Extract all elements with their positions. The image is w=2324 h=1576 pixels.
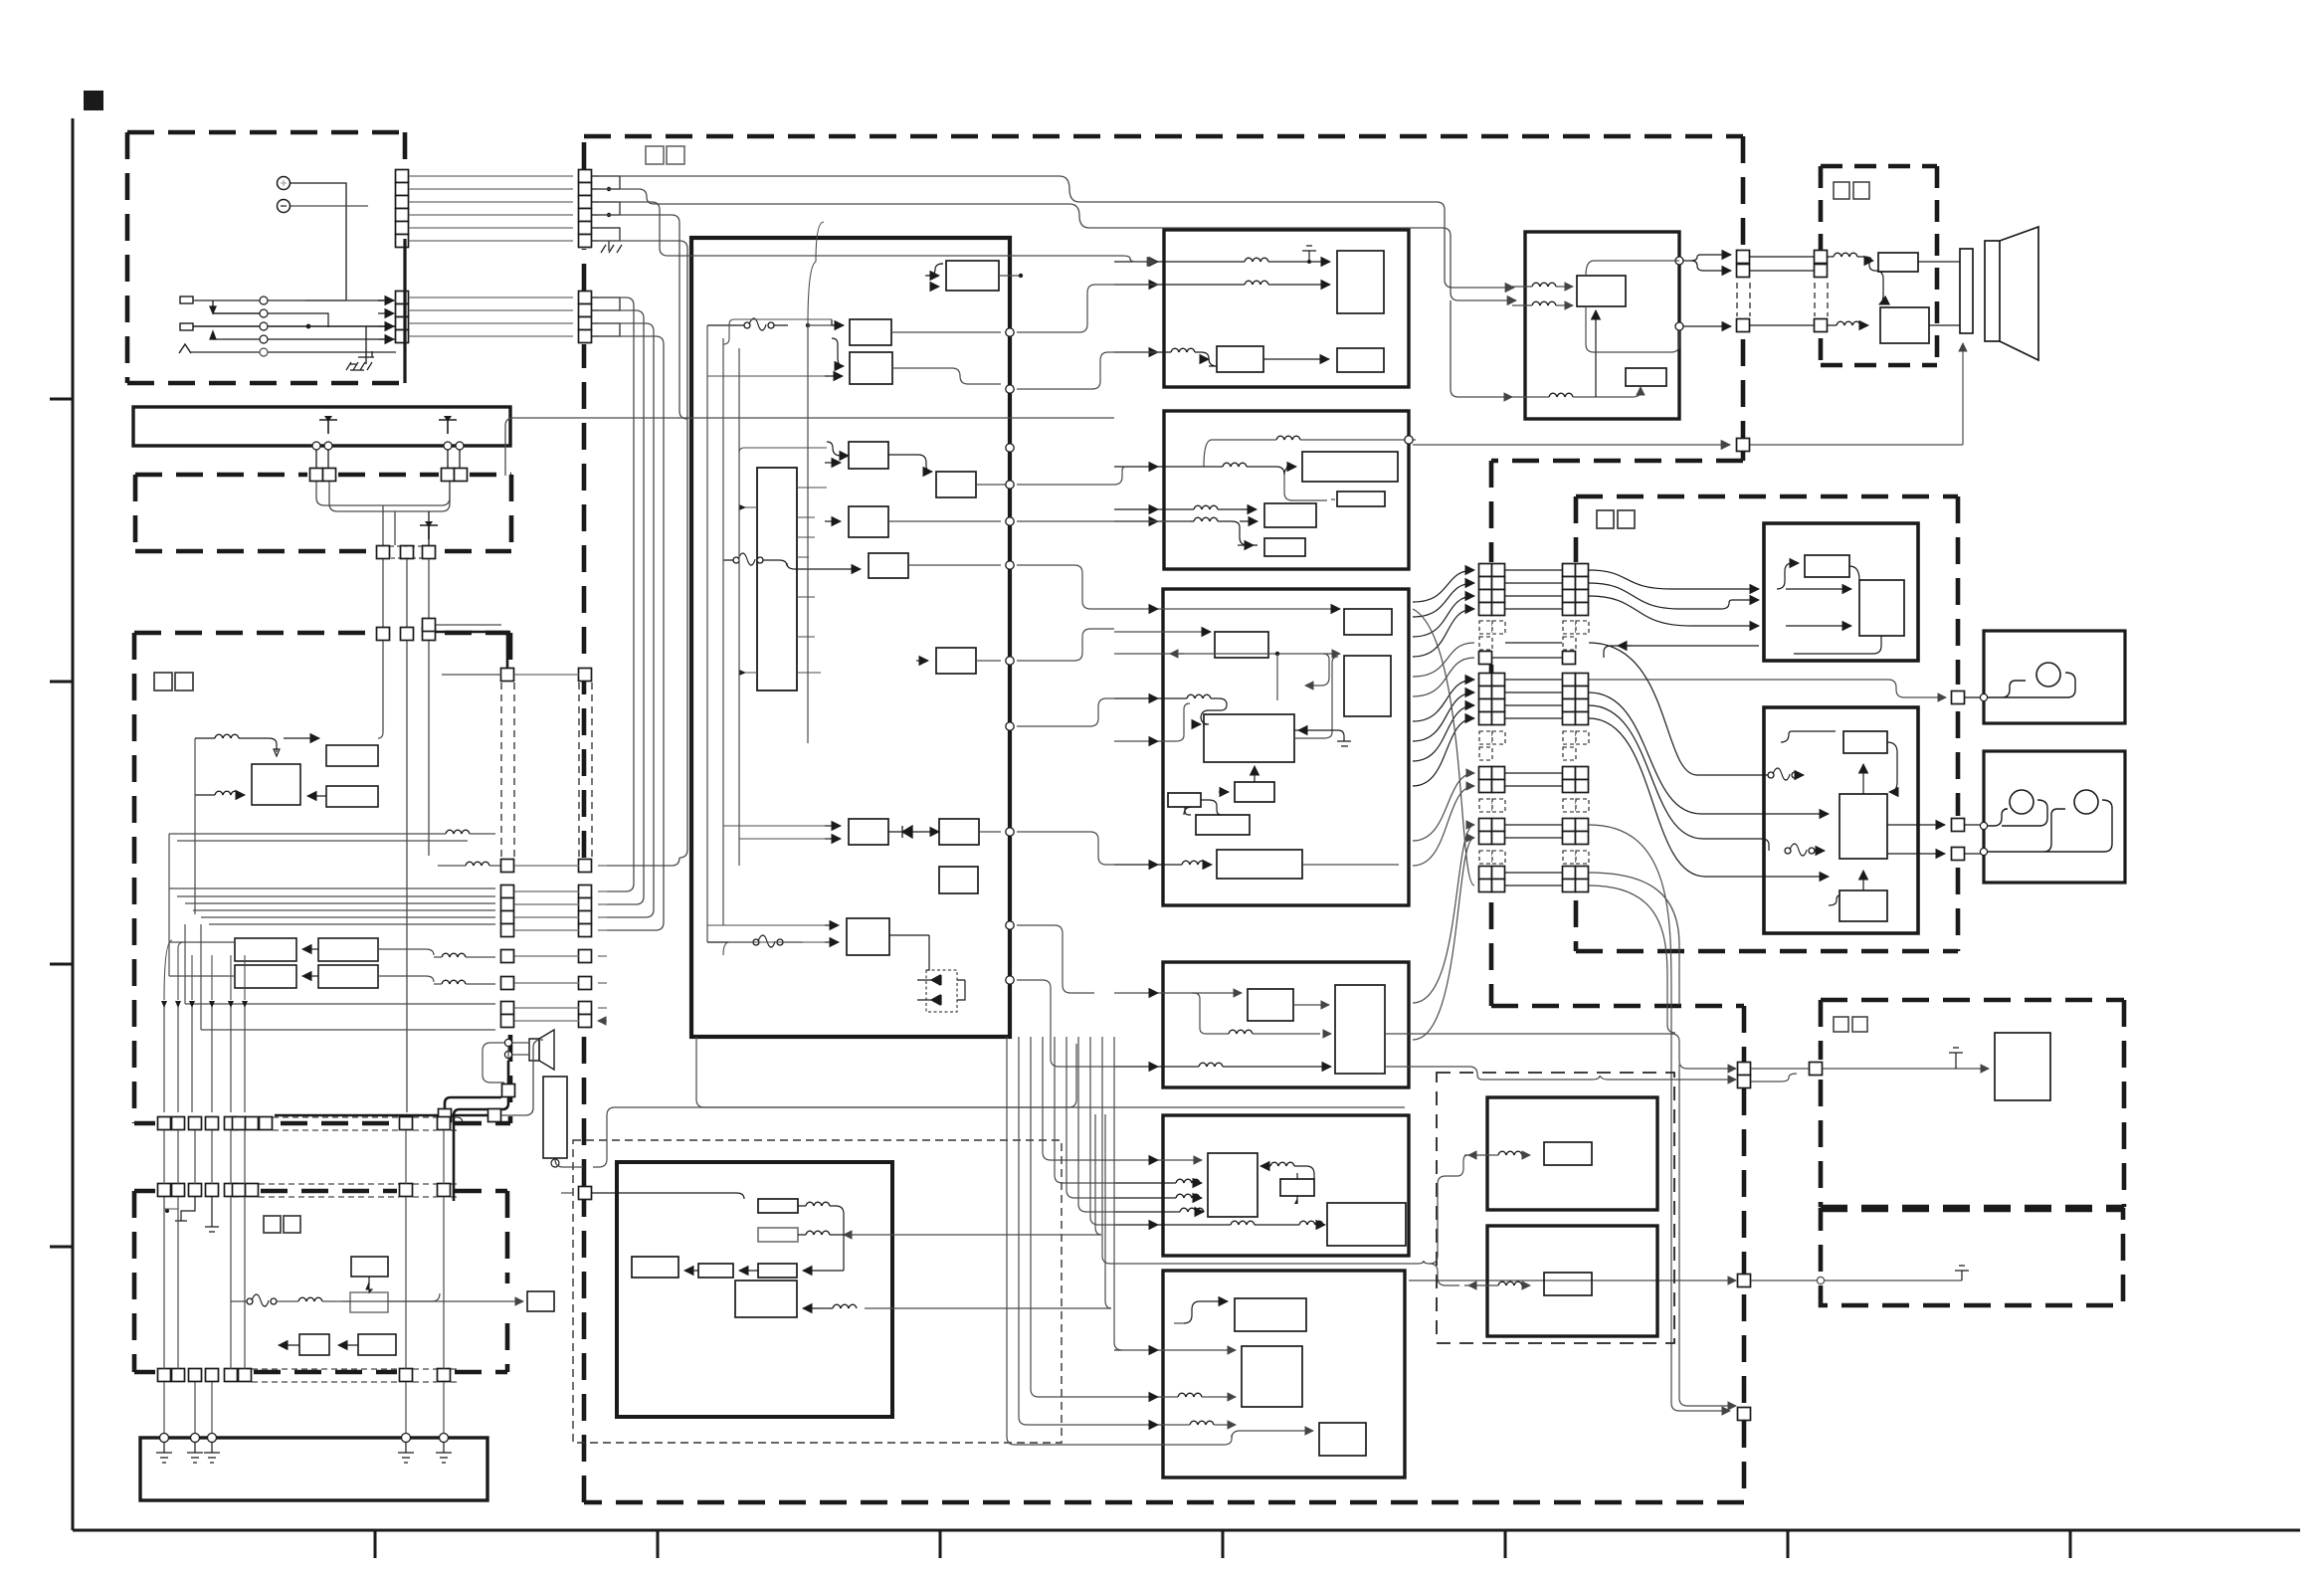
bottom tick 2 [657,1530,660,1558]
connector sq on F edge at O [579,1187,592,1200]
label squares block D [154,673,172,690]
box m1 [1235,1298,1306,1331]
label squares block Q [1834,182,1849,199]
wires Q boxes to speaker [1918,262,1960,325]
left feeder verticals inside G [706,325,708,942]
box l3 [1327,1203,1406,1246]
box t1 [1843,731,1887,753]
connector sq V2 on V edge [1810,1063,1823,1076]
box v1 [1995,1033,2050,1100]
jack wire 1 with contacts [193,299,396,301]
box M : power block [1163,1271,1405,1477]
box d1 [326,745,378,766]
circles on B bottom edge [312,442,320,450]
box Qa [1878,253,1918,272]
left tick 3 [50,963,73,966]
J inductor wire [1187,694,1211,698]
box g9 [849,819,888,845]
box g3 [850,352,892,384]
diode pair dotted box [926,970,957,1012]
connector pair on C top 1 [310,469,323,482]
feedback wire up into speaker driver [1962,343,1964,445]
box g1 top right [946,261,999,291]
box o6 [735,1280,797,1317]
thin dashed block N : sub area inside main board bottom [573,1140,1062,1443]
box g8 [936,648,976,674]
box l1 [1208,1153,1258,1217]
speaker driver rect [1960,249,1973,333]
wires between R columns lower [1505,680,1562,886]
h2 to h3 [1263,358,1329,360]
wires strip3 to battery box [164,1382,444,1434]
bottom tick 7 [2069,1530,2072,1558]
box S : loading motor drive (thick) [1764,523,1918,661]
box g11 [939,867,978,893]
K inductor mid [1229,1030,1253,1034]
box h1 [1337,251,1384,313]
box e5 small outside E [527,1291,554,1311]
box O : tuner block (thick) [617,1162,892,1417]
heavy path connector to strip [454,1097,508,1201]
G internal feeder curves top [808,262,816,325]
fuse feeding g7 [733,553,763,565]
K bottom wire [1199,1063,1223,1067]
M input wires [1114,1349,1236,1351]
box g6 [849,506,888,537]
wires between R columns upper [1492,570,1562,658]
antenna symbol 2 above B bottom [439,416,457,434]
strip row 1 on D bottom edge [158,1117,451,1130]
bottom tick 3 [939,1530,942,1558]
box J : servo block [1163,589,1409,905]
box j7 [1196,815,1250,835]
connector sq V1b on F edge [1738,1076,1751,1088]
box K : sync block [1163,962,1409,1087]
box L : regulator block [1163,1115,1409,1256]
wires inside C [316,482,450,505]
box o5 [758,1264,797,1278]
dashed block D : sub board left [134,633,510,1123]
connector strip below C [377,546,390,559]
lower col loop descenders [598,297,634,891]
wire from minus terminal [290,205,368,207]
o3-o4-o5 chain [684,1270,698,1272]
connector sq W1 [1738,1275,1751,1287]
box e1 [351,1257,388,1277]
wire loop from Qa down to Qb [1875,271,1883,304]
speaker connector column 2 [1815,251,1828,264]
left tick 2 [50,681,73,684]
L bottom wires with inductors [1231,1221,1255,1225]
box X2 inner [1544,1273,1592,1295]
box p2 [1626,368,1666,386]
wire d2 vertical feeds [194,738,196,914]
wires bus to H [1017,285,1158,332]
speaker cone [2000,227,2038,360]
connector sq on F edge bottom right [1738,1408,1751,1421]
t2 outputs to connectors [1887,824,1945,826]
box j5 [1235,782,1274,802]
fan-in wires J to column R1 upper [1413,570,1474,602]
jack plug 1 [180,296,193,303]
box g10 [939,819,979,845]
box t2 [1840,794,1887,859]
s1 input elbow [1777,563,1799,589]
box e4 [358,1334,396,1355]
H wire 1 with inductor [1245,258,1268,262]
box k2 tall [1335,985,1385,1074]
fuse + inductor wire into e4 [247,1294,277,1306]
long loop wire 1 (top) to P [598,176,1514,288]
inductor to Qa [1834,253,1857,257]
J top wire [1114,608,1338,610]
heavy vertical below speaker [507,1061,510,1083]
bottom tick 6 [1787,1530,1790,1558]
antenna symbol 1 above B bottom [319,416,337,434]
dashed box Y right of M [1437,1073,1674,1343]
m1 input elbow [1184,1301,1228,1323]
mic symbol [179,344,191,353]
box e2 [350,1292,388,1312]
box h3 [1337,348,1384,372]
wire bundle A2 to F edge [409,296,573,298]
loop wire 3 into H [598,202,1156,262]
box s1 [1805,555,1849,577]
long wire from C area y=420 [513,417,1114,419]
box j8 bottom [1217,850,1302,879]
box T : capstan motor drive (thick) [1764,707,1918,933]
I top wire with inductor to right edge [1276,436,1300,440]
left tick 1 [50,398,73,401]
column R1 lower group [1479,674,1505,725]
black index square top-left [84,91,103,110]
box j3 [1344,656,1391,716]
bottom tick 5 [1504,1530,1507,1558]
box t3 [1840,890,1887,921]
inductor to d1 [215,734,239,738]
O feed wire from connector [592,1193,744,1199]
j4 feeds [1294,657,1338,738]
connector column D-right top square [501,669,514,682]
box U2 : drum/capstan motors [1984,751,2125,883]
X1 wire [1498,1151,1522,1155]
box g5 [936,472,976,497]
box e3 [299,1334,329,1355]
wires g4/g5/g6 [827,442,849,456]
box g12 (lower center) [847,918,889,955]
descender to long 421 wire [598,215,687,419]
box m3 [1319,1423,1366,1456]
paired boxes row 2 [235,965,296,988]
label squares block F [646,146,664,164]
long loop wire 2 to P [598,189,1516,300]
dashed block V : sensor board right-bottom [1821,1000,2124,1207]
wires from R2 to V/W connectors [1589,873,1679,1005]
heavy elbow from top connector [436,632,507,668]
block A right edge heavy segment [403,239,406,383]
box B : switch strip board [133,407,510,446]
X2 wire [1498,1281,1522,1285]
box BT : battery holder bottom-left [140,1438,487,1500]
box j1 [1344,609,1392,635]
wire d3 to d2 [307,795,326,797]
battery ground symbols [156,1443,172,1463]
connector column A1 on block A [396,170,409,248]
column R1 upper solid pairs [1479,564,1505,616]
box U1 : loading motor [1984,631,2125,723]
strip row 2 on E top edge [158,1184,451,1197]
wire bundle A1 to F edge [409,175,573,177]
grounds under strip2 [175,1197,195,1221]
dashed block W : bottom-right board [1821,1210,2123,1305]
g2 input [832,319,844,325]
inductor on bundle wire to colA [466,862,489,866]
paired boxes row 1 [235,938,296,961]
box s2 [1859,580,1904,636]
connector top feed wire [436,624,501,626]
P third input from loop2 branch [1451,300,1499,397]
box g2 [850,319,891,345]
dashed block E : bottom-left board [134,1191,507,1372]
jack switch arrow 1 [210,300,216,313]
box i4 [1264,538,1305,556]
G right bus junctions [1006,328,1014,336]
t1 wires [1781,731,1836,742]
P input inductors [1532,283,1556,287]
column R2 lower group [1563,674,1589,725]
box o2 [758,1228,798,1242]
K outputs right to V connectors [1385,1034,1736,1069]
I wires 3/4 with inductors [1194,505,1218,509]
box o1 [758,1199,798,1213]
connector column A2 on block A [396,292,409,343]
P wire loop to top [1586,261,1679,276]
connector sq V1a on F edge [1738,1063,1751,1076]
motor M3 in U2 [2074,790,2098,814]
dashed block R : mechanism board right [1576,496,1958,951]
J bottom wire with inductor [1182,861,1206,865]
big loop from R2 to U1 connector [1589,680,1946,697]
s wires to s2 [1786,588,1851,590]
wires below rows [169,888,235,942]
j6/j7 wires [1185,807,1191,815]
box H : audio block [1164,230,1409,387]
tall rect pin stubs [797,488,827,673]
box G : main system IC block [691,238,1010,1037]
box Qb [1880,307,1929,343]
dashed block C : switch board [135,475,511,551]
fan-out wires column R2 lower to T [1589,643,1741,775]
jack wire 2 [193,325,396,327]
page border left line [72,118,75,1530]
P output junctions [1675,257,1683,265]
box X1 inner [1544,1142,1592,1165]
feeder horizontals to G boxes [723,319,832,344]
fan-out wires column R2 upper to S [1589,570,1759,589]
j5 up arrow to j4 [1254,766,1256,782]
box p1 [1577,276,1626,306]
wire with inductor upper [446,830,470,834]
K top wire [1114,993,1200,999]
connector column F-left lower [579,292,592,343]
wire bundle D mid horizontals [169,887,495,889]
wires g2/g3 to bus [891,331,1001,333]
inductor to Qb [1837,321,1860,325]
verticals below G to L/M/O [696,1037,1405,1107]
I mid wire to i2 [1284,475,1327,500]
wires P to speaker column [1683,255,1731,261]
G tall system-control rect [757,468,797,690]
wires between strip1 and strip2 [164,1130,444,1184]
box g4 [849,442,888,469]
wires strip2 to strip3 through E [164,1197,444,1369]
box j6 [1168,793,1201,807]
box d3 [326,786,378,807]
L input wires [1114,1159,1202,1161]
box P : audio amp block [1525,232,1679,419]
connector strip on D top edge [377,628,390,641]
H wire 2 with inductor [1245,281,1268,285]
I wire 2 with inductor [1223,463,1247,467]
L inductor to l1 from right [1270,1162,1294,1166]
connector column F-left lower squares [579,860,592,1028]
wire B to C pair 2 [448,450,460,468]
stub wires right of F-left lower column [592,297,620,336]
g1 wires [927,264,943,276]
dashed column bodies [501,683,514,858]
wires strip to D top [383,559,429,627]
label squares block E [264,1216,281,1233]
motor M1 in U1 [2036,663,2060,687]
box j4 center [1204,714,1294,762]
box i2 [1337,492,1385,506]
fan-in wires J/K to column R1 lower [1413,680,1474,721]
dashed block A : jack/battery input board top-left [127,132,405,383]
H wire 3 with inductor [1171,348,1195,352]
wire from plus terminal [290,183,346,300]
diode g9-g10 [888,826,912,838]
tall rect right of speaker [543,1077,567,1158]
t3 wire [1862,871,1864,890]
box i3 [1264,503,1316,527]
box h2 [1217,346,1263,372]
wire B to C pair 1 [316,450,328,468]
box k1 [1248,989,1293,1021]
W feed from M [1409,1280,1736,1281]
bottom tick 1 [374,1530,377,1558]
inductor into o6 [833,1304,857,1308]
ground below F-left upper column [608,241,610,251]
motor M2 in U2 [2010,790,2033,814]
jack plug 2 [180,323,193,330]
box g7 (fed by fuse) [869,553,908,578]
ground at j4 right [1337,730,1351,746]
connector column D-right lower squares [501,860,514,1028]
left tick 4 [50,1246,73,1249]
connector column F-left upper [579,170,592,248]
left vertical bundle in D [164,1004,245,1112]
box d2 [252,764,300,805]
wire into v1 with ground [1823,1068,1989,1070]
inductor to d2 [215,791,239,795]
box o4 [698,1264,733,1278]
antenna symbol on strip [420,521,438,539]
H ground stub [1302,246,1316,262]
box X1 in Y [1487,1097,1657,1210]
arrows into F column from right side wires [598,866,607,1021]
dashed block Q : speaker board top-right [1821,166,1937,365]
S return wire [1604,646,1759,658]
box o3 [632,1257,678,1278]
box I : video block [1164,411,1409,569]
connector pair on C top 2 [442,469,455,482]
e1 wire up [368,1277,370,1294]
wires between D columns [514,675,579,1021]
J wire to j2 [1114,631,1204,633]
box i1 wide [1302,452,1398,482]
jack wire 3 [213,338,396,340]
arrows into g3 [832,338,844,366]
label squares block V [1834,1017,1848,1032]
long wire mid to speaker feedback [1413,444,1730,446]
dashed block F : main board (stepped outline) [584,136,1744,1502]
stub wires right of F-left upper column [592,176,620,241]
J bidirectional wire [1114,653,1338,655]
box X2 in Y [1487,1226,1657,1336]
bottom tick 4 [1222,1530,1225,1558]
speaker body rect [1985,241,2000,341]
fuse feeding top area [744,318,774,330]
column R2 upper solid pairs [1563,564,1589,616]
speaker connector column 1 [1737,251,1750,264]
battery contacts on BT top [160,1434,169,1443]
e3-e4 wire [338,1344,358,1346]
chassis ground in block A [358,326,366,364]
box j2 [1215,632,1268,658]
Y feed wire split [1114,1155,1467,1264]
battery terminal plus [278,177,290,190]
column R1 dashed part upper [1479,621,1492,634]
l2 up arrow [1296,1196,1298,1204]
wires between speaker columns [1750,257,1815,325]
connector sq below speaker [502,1084,515,1097]
fuse to g12 [753,935,783,947]
page border bottom line [73,1529,2300,1532]
inductor o1 [806,1202,830,1206]
box m2 [1242,1346,1302,1407]
speaker on D right [529,1039,539,1061]
box l2 [1280,1179,1314,1196]
strip row 3 on E bottom edge [158,1369,451,1382]
battery terminal minus [278,200,290,213]
label squares block R [1597,510,1614,528]
column R2 dashed part upper [1563,621,1576,634]
descender to lower F column [598,241,687,866]
J wire 745 [1114,703,1190,741]
wires into D [383,641,429,1112]
inductor o2 [806,1231,830,1235]
mic wire [191,351,396,353]
